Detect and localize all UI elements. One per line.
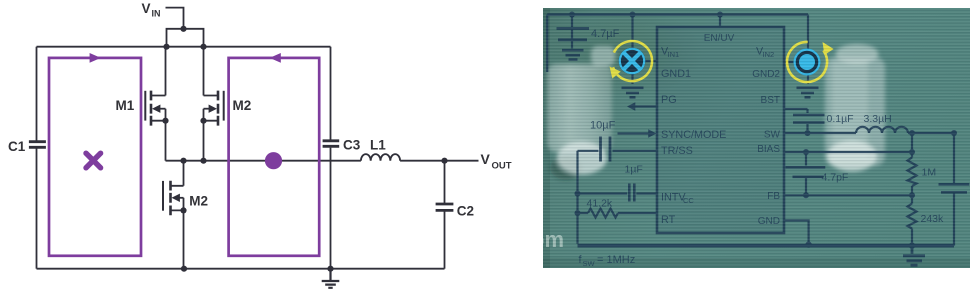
capacitor 4.7uF [557, 15, 590, 60]
wire L1 to VOUT [400, 160, 478, 162]
hot loop 1 [49, 58, 141, 256]
junction cout top [951, 130, 957, 136]
labels left schematic [8, 1, 512, 219]
svg-text:IN: IN [152, 9, 161, 19]
inductor 3.3uH [856, 127, 908, 133]
svg-text:M2: M2 [189, 193, 208, 208]
pin EN/UV stub [719, 15, 721, 28]
video scanlines overlay [543, 8, 970, 268]
wire gnd left rail [576, 151, 578, 244]
wire VIN top rail pcb [547, 13, 808, 16]
wire left rail upper [36, 47, 38, 141]
resistor 243k [908, 195, 917, 249]
junction ground on bottom rail [327, 266, 333, 272]
junction bst sw [805, 130, 811, 136]
resistor 1M [908, 133, 917, 195]
marker X current into page [86, 153, 101, 168]
ground [322, 269, 340, 288]
svg-text:M1: M1 [116, 98, 135, 113]
junction 41.2k rail [575, 210, 581, 216]
junction M2B drain on switch node [180, 158, 186, 164]
capacitor photo left (10uF body) [547, 46, 615, 180]
wire left rail lower [36, 148, 38, 269]
capacitor cout right [939, 133, 970, 246]
arrow loop2 [270, 53, 281, 63]
junction fb 4.7pF [803, 192, 809, 198]
svg-text:V: V [481, 151, 491, 167]
loop 2 [229, 58, 320, 256]
rotation arrow left [613, 41, 652, 81]
wire VIN to M2 drain branch [184, 29, 204, 47]
ground bars left via [622, 88, 644, 98]
junction bias divider [909, 149, 915, 155]
transistor M2 bottom [163, 161, 187, 269]
wire sw to out node [908, 132, 954, 134]
rotation arrow right [787, 42, 827, 82]
resistor 41.2k [578, 209, 658, 218]
capacitor 4.7pF [786, 149, 826, 195]
PCB board background [543, 8, 970, 268]
junction M2 drain on top rail [200, 44, 206, 50]
capacitor C2 [436, 161, 454, 269]
transistor M2 top [200, 47, 223, 161]
junction 1uF rail [575, 191, 581, 197]
node VIN lead wire [166, 8, 184, 27]
junction via left [630, 12, 636, 18]
junction M2B source on bottom rail [181, 266, 187, 272]
pin PG arrow [634, 105, 657, 107]
via stack left vertical [631, 16, 633, 84]
pin TR/SS wire [613, 150, 658, 152]
pin SYNC arrow [618, 132, 649, 134]
wire via to VIN2 [784, 61, 808, 63]
junction divider top [909, 130, 915, 136]
ground bars right via [797, 88, 819, 98]
junction fb divider [909, 192, 915, 198]
wire FB line [784, 194, 912, 196]
capacitor 10uF [578, 137, 611, 162]
junction M1 drain on top rail [163, 44, 169, 50]
svg-text:C2: C2 [457, 204, 474, 219]
arrow loop1 [90, 53, 101, 63]
PCB schematic overlay ink [547, 12, 969, 266]
pin GND wire [784, 221, 809, 244]
transistor M1 [145, 47, 168, 161]
wire switch node [166, 160, 361, 162]
wire BIAS line [784, 151, 912, 153]
capacitor C3 [323, 141, 340, 147]
marker dot current out of page [265, 152, 282, 169]
capacitor 0.1uF bst [784, 109, 825, 132]
pcb labels [579, 28, 945, 268]
junction VOUT node [441, 158, 447, 164]
wire bottom rail [37, 268, 445, 270]
wire gnd bus bottom [578, 244, 955, 248]
svg-text:C3: C3 [343, 138, 361, 153]
IC U1 outline [657, 27, 784, 233]
svg-text:M2: M2 [233, 98, 252, 113]
wire top rail [37, 46, 331, 48]
wire via to VIN1 [633, 60, 658, 62]
junction VIN split [180, 26, 186, 32]
wire SW line [784, 132, 856, 134]
junction EN [717, 12, 723, 18]
wire VIN to M1 drain branch [167, 29, 184, 47]
capacitor 1uF [578, 184, 658, 202]
via marker X into board [619, 48, 646, 75]
junction M2 source on switch node [200, 158, 206, 164]
wire right rail upper [330, 47, 332, 140]
svg-text:C1: C1 [8, 139, 26, 154]
svg-text:V: V [142, 1, 151, 16]
svg-text:OUT: OUT [492, 161, 512, 172]
ground pcb [903, 246, 925, 266]
junction 4.7uF [569, 12, 575, 18]
capacitor photo right (cout body) [825, 44, 885, 172]
via marker dot out of board [794, 49, 821, 76]
wire right rail lower [330, 148, 332, 269]
via stack right vertical [807, 15, 809, 85]
capacitor C1 [29, 142, 46, 148]
inductor L1 [361, 154, 400, 161]
wire left rail drop [546, 15, 548, 73]
svg-text:L1: L1 [370, 138, 386, 153]
